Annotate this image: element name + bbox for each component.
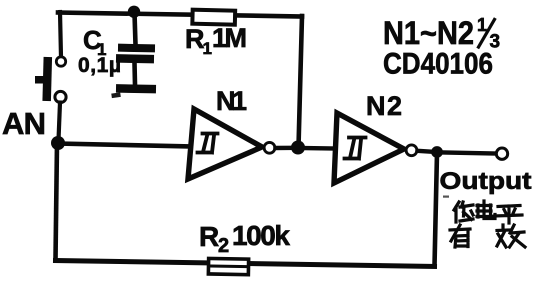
N1 hysteresis symbol <box>198 134 218 153</box>
wire: node to N2 input <box>298 146 336 151</box>
wire: right vertical from R1 down to N1 output node <box>299 16 303 147</box>
label Chinese: 低 (low) <box>454 202 473 222</box>
wire: top rail from left corner to right corner <box>58 13 302 17</box>
label R1 1M <box>185 23 247 58</box>
capacitor C1 bottom lead <box>132 63 137 85</box>
svg-text:1M: 1M <box>212 23 247 53</box>
capacitor C1 bottom termination bar <box>116 84 156 93</box>
svg-text:Output: Output <box>440 168 532 195</box>
op-amp-style inverter N1 triangle <box>188 109 262 179</box>
N1 output bubble <box>264 142 275 153</box>
switch AN actuator stem <box>35 76 44 84</box>
label C1 <box>83 25 106 59</box>
resistor R2 <box>208 258 248 274</box>
wire: N2 bubble to output node <box>418 151 434 152</box>
label 0.1u <box>78 54 121 77</box>
svg-text:1: 1 <box>203 39 212 58</box>
svg-text:100k: 100k <box>232 220 290 251</box>
node: output junction <box>431 146 443 158</box>
wire: top-left vertical drop to switch <box>60 12 61 57</box>
svg-text:2: 2 <box>218 235 229 257</box>
label R2 100k <box>199 220 290 257</box>
label Output <box>440 168 532 195</box>
scan smudge under Output <box>443 196 449 198</box>
capacitor C1 plate 1 <box>118 44 155 53</box>
node: junction at AN line <box>51 136 65 150</box>
wire: output vertical down to bottom rail <box>435 153 438 266</box>
label Chinese: 有 (active) <box>450 225 470 247</box>
capacitor C1 plate 2 <box>116 54 154 63</box>
capacitor C1 bottom-left smudge <box>111 92 121 98</box>
N2 hysteresis symbol <box>345 138 366 159</box>
wire: bottom rail <box>56 261 435 267</box>
wire: left vertical down to bottom rail <box>56 143 58 260</box>
node: junction between N1 and N2 <box>291 141 305 155</box>
node: junction dot at capacitor top <box>128 6 140 18</box>
wire: output node to terminal <box>437 152 496 153</box>
wire: AN node to N1 input <box>58 144 193 147</box>
switch AN lower terminal circle <box>55 91 66 102</box>
resistor R1 <box>192 10 235 25</box>
svg-text:N2: N2 <box>366 91 402 121</box>
label Chinese: 效 (effective) <box>497 225 525 247</box>
label Chinese: 平 (level) <box>494 206 522 224</box>
output terminal circle <box>496 148 507 159</box>
svg-text:CD40106: CD40106 <box>383 48 493 81</box>
inverter N2 triangle <box>334 113 404 183</box>
switch AN actuator bar <box>42 57 52 101</box>
label CD40106 <box>383 48 493 81</box>
svg-text:N1~N2: N1~N2 <box>383 15 474 51</box>
switch AN upper terminal circle <box>56 57 65 66</box>
svg-text:AN: AN <box>2 106 46 141</box>
wire: N1 bubble to node <box>276 146 297 151</box>
svg-text:0,1µ: 0,1µ <box>78 54 121 77</box>
label Chinese: 电 (electric) <box>477 201 495 219</box>
label AN <box>2 106 46 141</box>
label N1~N2 1/3 <box>383 15 500 53</box>
label N2 <box>366 91 402 121</box>
N2 output bubble <box>406 145 417 156</box>
svg-text:R: R <box>199 221 219 252</box>
svg-text:N1: N1 <box>216 86 247 116</box>
wire: switch lower terminal to node <box>59 103 61 141</box>
label N1 <box>216 86 247 116</box>
capacitor C1 top lead <box>135 13 136 45</box>
